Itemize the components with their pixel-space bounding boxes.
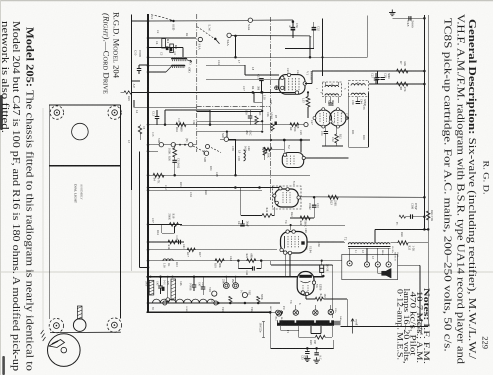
NFB wire [271,264,333,266]
vert from C20 cluster [322,18,324,76]
resistor R4 [153,173,164,177]
V2 anode wire [305,157,348,159]
HT feed wire y276.7 [147,276,324,278]
resistor R2 box [170,44,174,53]
wire y131.6 [197,131,263,133]
pulley bottom-left [49,318,63,332]
notes text [395,288,431,364]
loop box for R16 [165,109,210,111]
volume pot line [148,150,158,152]
wire row y107 [134,106,197,108]
HT choke/C100 [399,215,405,218]
tuning drum [48,334,81,367]
switch S2A row [197,27,214,39]
wire y229.4 [375,228,428,230]
C41 cap [240,224,245,226]
C30 cluster [292,21,295,24]
wire row y124.6 [148,124,306,126]
row y260.6 [148,260,342,262]
wire top row [131,15,133,22]
caption R.G.D. Model 204 Cord Drive [101,12,120,94]
wire row y303 [148,302,280,304]
cord drive divider [49,165,120,167]
cap row2 [192,285,197,287]
components above V3 [328,103,333,105]
V1 feed wires [245,74,279,76]
pulley bottom-right [107,318,121,332]
IFT3 [349,81,369,97]
C50 electrolytic [320,265,324,273]
capacitor C13 [155,117,160,119]
coil L5 [172,57,187,60]
switch S1D dashed [151,15,173,21]
earth row [271,347,334,349]
valve V4 [273,186,302,209]
HT rail left [423,15,425,230]
selector feed [398,264,420,266]
wire row y149.3 [262,148,284,150]
T1 terminals [276,311,281,316]
T1 black bar [277,320,334,326]
V5 cathode/screen drops [284,254,286,276]
R5 vertical [263,147,267,155]
valve V2 [282,153,303,168]
switch S4A contact [248,18,252,22]
wire row y57 [148,56,367,58]
speech coil wires [378,272,382,274]
R18 row [148,223,182,225]
wire row y175.3 [148,174,310,176]
mains switch leg [346,299,348,326]
dial cord scallops [153,299,215,303]
row y249.8 [148,249,277,251]
HT rail right [427,15,429,326]
AM osc coil L9 [244,150,246,161]
choke CH1 [149,280,154,295]
C33 [312,205,317,207]
tuning gang circle [72,123,89,140]
pulley top-right [108,106,121,119]
transformer T2 [348,243,390,245]
aerial stub [132,80,141,82]
valve V3 circles [315,110,331,126]
cord [50,331,121,333]
components below V3 [324,132,329,134]
cord drive chassis outline [49,104,120,106]
choke CH2 [171,279,176,300]
C43 loop [237,261,239,269]
coil L15 [306,97,310,108]
R28 [315,335,325,339]
R30 vertical [173,148,177,157]
resistor R1 box [162,39,166,49]
speaker [382,268,392,278]
wire row y140 [229,139,311,141]
control pots [223,283,229,289]
wire y121.2 [197,120,263,122]
drum spindle [77,306,82,319]
resistor R16 [176,123,186,127]
V4 cathode [240,188,242,216]
resistor R7 [397,69,409,73]
caps C28 [375,78,380,80]
wire row y47.5 [148,47,183,49]
wire row y71 right [305,83,312,85]
R24 row [290,217,314,219]
trimmer slugs [166,47,169,51]
R25 [390,242,397,244]
S2 osc contact [224,137,228,141]
capacitor C15 [259,79,264,81]
T1 under-loops [279,326,281,330]
L-wire to C32 [285,48,314,50]
R14/C37 row [148,241,184,243]
aerial series resistor [124,91,132,94]
aerial coil [138,126,141,134]
R27 [305,295,307,299]
FM box dash-dot bottom [197,106,271,108]
lamp housing box [342,254,398,279]
wire row y65 [148,65,172,67]
chassis bus [147,14,149,313]
lamp taps [349,248,351,260]
V5 anode to T2 [307,241,344,243]
L stub from earth wire [253,93,255,102]
IFT2 [323,82,342,97]
section divider S1 [196,14,198,152]
C23/R6 cluster [374,78,379,80]
bottom right loop [341,325,429,327]
pilot lamps [347,261,352,266]
V3 right loop [348,93,350,148]
cap row1 [158,286,163,288]
left paragraph text [0,21,36,372]
vert x262 [261,92,263,130]
aerial line [131,15,133,191]
resistor R9 [290,123,299,127]
C32 cluster [312,28,317,30]
double tuner wires [197,109,263,111]
long grid wire y225.1 [180,224,345,226]
voltage selector labels [262,322,265,338]
wire rows y187.5/y190 [148,187,281,189]
R/C near divider [271,123,274,131]
wire row y38 [148,37,196,39]
valve V1 [279,75,305,95]
section divider S2 [270,17,272,200]
pulley top-left [50,106,63,119]
trimmer [275,86,279,90]
long earth wire y92.4 [132,91,296,93]
C11 [172,160,177,162]
ground top right [389,10,395,16]
feedback return wire [139,151,141,267]
heavy chassis bottom wire [147,311,271,313]
cord anchor clamp [49,340,65,348]
resistor R8 [397,82,409,86]
osc vertical x235.5 [235,139,237,175]
general description text [441,14,477,364]
switch row y144.7 [148,144,196,146]
valve V5 [281,232,308,254]
V4 anode row y197.3 [301,196,425,199]
wire row y84 right [369,83,424,85]
coil L6 [172,64,185,67]
drive drum [73,319,86,332]
osc extra cluster [248,116,253,118]
capacitor C10 [137,69,142,71]
valve V6 rectifier [297,272,314,296]
capacitor C18 [409,16,411,21]
